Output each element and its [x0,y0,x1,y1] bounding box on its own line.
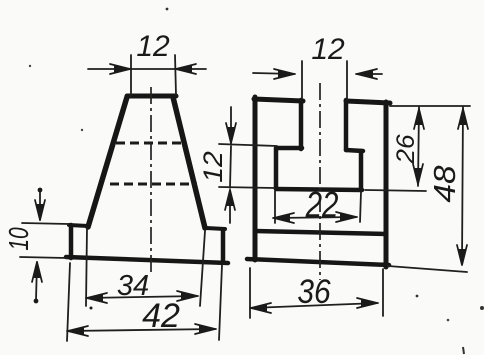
svg-text:12: 12 [136,30,170,63]
svg-text:48: 48 [427,165,462,202]
svg-text:26: 26 [393,134,420,165]
svg-text:22: 22 [305,184,339,224]
svg-text:10: 10 [4,227,35,251]
svg-text:12: 12 [198,151,228,183]
svg-text:42: 42 [142,297,180,335]
svg-text:36: 36 [297,272,330,310]
svg-text:12: 12 [311,33,345,66]
